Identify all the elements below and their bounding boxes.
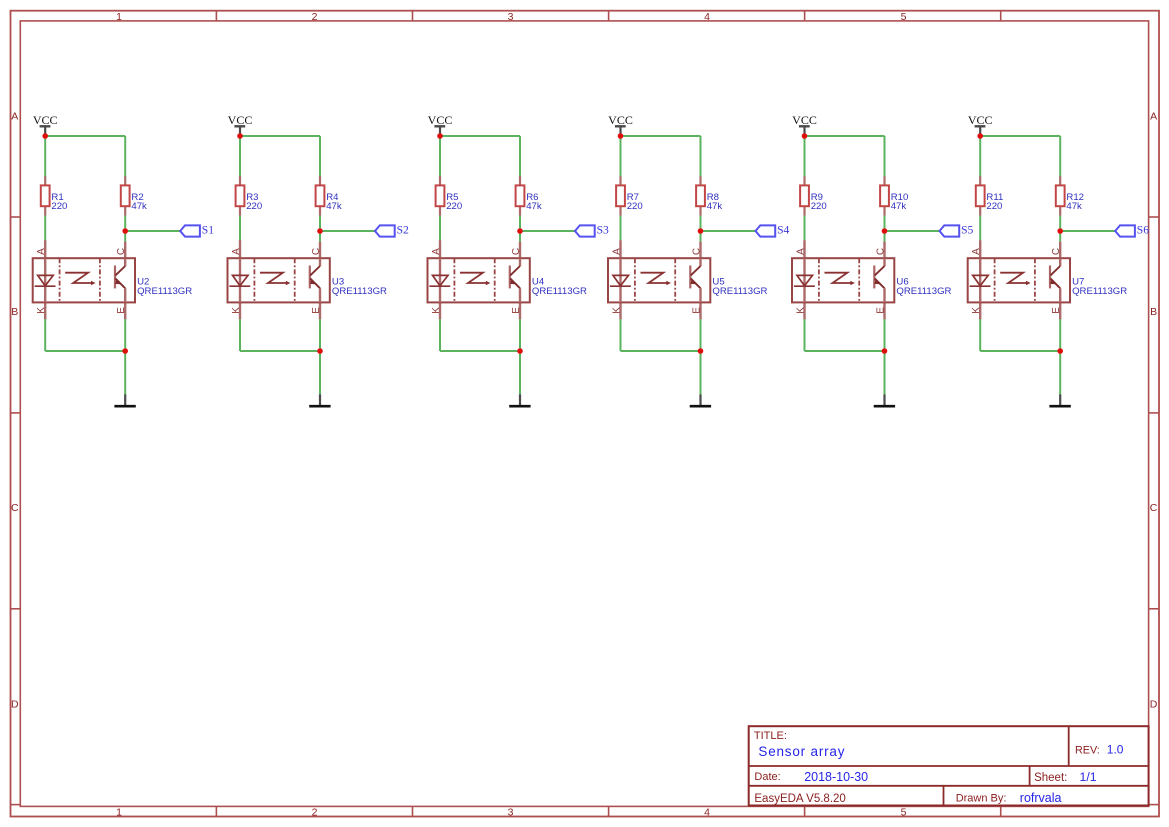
svg-text:E: E: [875, 307, 886, 314]
wire VCC to R2 (block 1): [124, 136, 126, 177]
border row ticks right: [1149, 216, 1159, 218]
pin C (collector) of U7: [1059, 242, 1061, 259]
wire bottom horizontal (block 4): [621, 350, 701, 352]
internal divider dash lines of U6: [818, 258, 820, 302]
svg-text:QRE1113GR: QRE1113GR: [712, 286, 767, 297]
pin E (emitter) of U4: [519, 302, 521, 319]
pin K (cathode) of U2: [44, 302, 46, 319]
pin A (anode) of U2: [44, 240, 46, 258]
svg-text:K: K: [971, 307, 982, 314]
junction ground node (block 5): [882, 348, 888, 354]
pin A (anode) of U7: [979, 240, 981, 258]
resistor R6 47k: [516, 176, 542, 216]
wire pin K down (block 3): [439, 319, 441, 351]
phototransistor of U6: [873, 266, 875, 289]
wire VCC to R3 (block 2): [239, 136, 241, 177]
junction ground node (block 3): [517, 348, 523, 354]
svg-text:C: C: [1150, 502, 1158, 514]
wire pin E to ground (block 6): [1059, 319, 1061, 394]
junction VCC node (block 2): [237, 133, 243, 139]
ground (block 6): [1049, 394, 1070, 406]
svg-text:S3: S3: [597, 224, 609, 237]
LED (emitter diode) of U2: [44, 258, 46, 302]
pin A (anode) of U5: [619, 240, 621, 258]
svg-text:A: A: [36, 248, 47, 255]
svg-text:A: A: [795, 248, 806, 255]
ground (block 5): [874, 394, 895, 406]
svg-text:K: K: [231, 307, 242, 314]
wire R4 to node S2 (block 2): [319, 216, 321, 231]
phototransistor of U4: [509, 266, 511, 289]
wire R6 to node S3 (block 3): [519, 216, 521, 231]
svg-text:Date:: Date:: [754, 771, 780, 783]
svg-text:220: 220: [246, 201, 262, 212]
light coupling arrow of U6: [825, 273, 851, 283]
svg-text:E: E: [116, 307, 127, 314]
junction VCC node (block 1): [42, 133, 48, 139]
junction ground node (block 6): [1057, 348, 1063, 354]
wire VCC to R8 (block 4): [700, 136, 702, 177]
svg-text:E: E: [311, 307, 322, 314]
phototransistor of U7: [1049, 266, 1051, 289]
optical sensor U7 QRE1113GR: [968, 240, 1128, 319]
svg-text:1/1: 1/1: [1080, 770, 1097, 784]
body outline of U6: [792, 258, 894, 302]
wire pin E to ground (block 1): [124, 319, 126, 394]
wire R12 to node S6 (block 6): [1059, 216, 1061, 231]
wire VCC to R1 (block 1): [44, 136, 46, 177]
wire node S6 to pin C (block 6): [1059, 231, 1061, 242]
optical sensor U6 QRE1113GR: [792, 240, 952, 319]
wire node S2 to pin C (block 2): [319, 231, 321, 242]
svg-text:A: A: [971, 248, 982, 255]
optical sensor U2 QRE1113GR: [33, 240, 193, 319]
pin C (collector) of U6: [883, 242, 885, 259]
pin K (cathode) of U3: [239, 302, 241, 319]
phototransistor of U2: [114, 266, 116, 289]
svg-text:TITLE:: TITLE:: [754, 730, 787, 742]
svg-text:B: B: [11, 306, 18, 318]
phototransistor of U5: [689, 266, 691, 289]
svg-text:QRE1113GR: QRE1113GR: [532, 286, 587, 297]
internal divider dash lines of U7: [994, 258, 996, 302]
svg-text:S1: S1: [202, 224, 214, 237]
junction node S5: [882, 228, 888, 234]
svg-text:220: 220: [627, 201, 643, 212]
wire pin E to ground (block 2): [319, 319, 321, 394]
resistor R12 47k: [1056, 176, 1084, 216]
pin E (emitter) of U6: [883, 302, 885, 319]
ground (block 3): [509, 394, 530, 406]
light coupling arrow of U2: [65, 273, 91, 283]
wire R9 to pin A (block 5): [804, 216, 806, 241]
resistor R7 220: [616, 176, 643, 216]
svg-text:47k: 47k: [326, 201, 342, 212]
svg-text:C: C: [1051, 248, 1062, 255]
svg-text:4: 4: [704, 11, 710, 23]
wire pin K down (block 5): [804, 319, 806, 351]
wire pin K down (block 6): [979, 319, 981, 351]
svg-text:C: C: [691, 248, 702, 255]
svg-text:A: A: [611, 248, 622, 255]
internal divider dash lines of U5: [634, 258, 636, 302]
pin E (emitter) of U5: [699, 302, 701, 319]
pin A (anode) of U4: [439, 240, 441, 258]
light coupling arrow of U4: [460, 273, 486, 283]
wire VCC horizontal (block 3): [440, 135, 520, 137]
wire VCC horizontal (block 2): [240, 135, 320, 137]
resistor R8 47k: [696, 176, 722, 216]
optical sensor U5 QRE1113GR: [608, 240, 768, 319]
wire VCC to R9 (block 5): [804, 136, 806, 177]
resistor R11 220: [976, 176, 1003, 216]
svg-text:K: K: [431, 307, 442, 314]
wire node S2 to net flag (block 2): [320, 230, 375, 232]
wire node S3 to net flag (block 3): [520, 230, 575, 232]
wire node S6 to net flag (block 6): [1060, 230, 1115, 232]
body outline of U3: [228, 258, 330, 302]
svg-text:220: 220: [51, 201, 67, 212]
pin K (cathode) of U7: [979, 302, 981, 319]
svg-text:A: A: [11, 110, 18, 122]
body outline of U5: [608, 258, 710, 302]
svg-text:EasyEDA V5.8.20: EasyEDA V5.8.20: [754, 793, 845, 805]
svg-text:K: K: [611, 307, 622, 314]
wire R11 to pin A (block 6): [979, 216, 981, 241]
junction node S2: [317, 228, 323, 234]
svg-text:E: E: [691, 307, 702, 314]
power flag VCC (block 1): [33, 113, 58, 136]
svg-text:3: 3: [508, 11, 514, 23]
svg-text:47k: 47k: [891, 201, 907, 212]
svg-text:REV:: REV:: [1075, 744, 1100, 756]
resistor R4 47k: [316, 176, 342, 216]
wire R10 to node S5 (block 5): [884, 216, 886, 231]
svg-text:1: 1: [116, 11, 122, 23]
wire R1 to pin A (block 1): [44, 216, 46, 241]
pin C (collector) of U3: [319, 242, 321, 259]
svg-text:S4: S4: [777, 224, 789, 237]
svg-text:C: C: [311, 248, 322, 255]
junction node S6: [1057, 228, 1063, 234]
light coupling arrow of U3: [260, 273, 286, 283]
junction ground node (block 2): [317, 348, 323, 354]
ground (block 2): [309, 394, 330, 406]
net flag S1: [180, 224, 214, 237]
LED (emitter diode) of U7: [979, 258, 981, 302]
pin E (emitter) of U3: [319, 302, 321, 319]
power flag VCC (block 5): [792, 113, 817, 136]
body outline of U7: [968, 258, 1070, 302]
svg-text:D: D: [1150, 698, 1158, 710]
svg-text:Sheet:: Sheet:: [1034, 772, 1067, 784]
ground (block 1): [114, 394, 135, 406]
svg-text:2: 2: [312, 11, 318, 23]
wire VCC horizontal (block 4): [621, 135, 701, 137]
border column ticks top: [215, 11, 217, 21]
pin K (cathode) of U4: [439, 302, 441, 319]
junction ground node (block 4): [698, 348, 704, 354]
svg-text:S6: S6: [1137, 224, 1149, 237]
wire node S5 to pin C (block 5): [884, 231, 886, 242]
optical sensor U3 QRE1113GR: [228, 240, 388, 319]
internal divider dash lines of U4: [453, 258, 455, 302]
svg-text:VCC: VCC: [792, 113, 817, 127]
wire node S1 to pin C (block 1): [124, 231, 126, 242]
wire VCC to R4 (block 2): [319, 136, 321, 177]
wire R5 to pin A (block 3): [439, 216, 441, 241]
LED (emitter diode) of U5: [619, 258, 621, 302]
pin C (collector) of U4: [519, 242, 521, 259]
pin A (anode) of U6: [803, 240, 805, 258]
svg-text:220: 220: [446, 201, 462, 212]
wire VCC to R10 (block 5): [884, 136, 886, 177]
svg-text:E: E: [1051, 307, 1062, 314]
wire pin K down (block 2): [239, 319, 241, 351]
wire bottom horizontal (block 2): [240, 350, 320, 352]
svg-text:B: B: [1150, 306, 1157, 318]
svg-text:QRE1113GR: QRE1113GR: [137, 286, 192, 297]
wire VCC horizontal (block 6): [980, 135, 1060, 137]
wire node S4 to net flag (block 4): [701, 230, 756, 232]
power flag VCC (block 2): [228, 113, 253, 136]
wire VCC to R5 (block 3): [439, 136, 441, 177]
svg-text:VCC: VCC: [428, 113, 453, 127]
wire pin E to ground (block 4): [700, 319, 702, 394]
wire pin K down (block 4): [620, 319, 622, 351]
ground (block 4): [690, 394, 711, 406]
junction ground node (block 1): [122, 348, 128, 354]
svg-text:4: 4: [704, 807, 710, 819]
border row ticks left: [11, 216, 21, 218]
border corner step bottom-right: [1149, 804, 1159, 806]
wire node S1 to net flag (block 1): [125, 230, 180, 232]
svg-text:S2: S2: [397, 224, 409, 237]
wire pin K down (block 1): [44, 319, 46, 351]
svg-text:A: A: [1150, 110, 1157, 122]
power flag VCC (block 6): [968, 113, 993, 136]
svg-text:QRE1113GR: QRE1113GR: [896, 286, 951, 297]
wire VCC to R11 (block 6): [979, 136, 981, 177]
net flag S5: [940, 224, 974, 237]
resistor R1 220: [41, 176, 68, 216]
junction VCC node (block 4): [618, 133, 624, 139]
junction node S1: [122, 228, 128, 234]
svg-text:C: C: [116, 248, 127, 255]
internal divider dash lines of U3: [253, 258, 255, 302]
title block outline: [749, 726, 1149, 805]
junction VCC node (block 6): [977, 133, 983, 139]
junction node S3: [517, 228, 523, 234]
svg-text:E: E: [511, 307, 522, 314]
svg-text:Drawn By:: Drawn By:: [956, 793, 1007, 805]
pin E (emitter) of U2: [124, 302, 126, 319]
wire VCC to R12 (block 6): [1059, 136, 1061, 177]
wire R3 to pin A (block 2): [239, 216, 241, 241]
junction VCC node (block 5): [802, 133, 808, 139]
pin K (cathode) of U6: [803, 302, 805, 319]
pin E (emitter) of U7: [1059, 302, 1061, 319]
internal divider dash lines of U2: [59, 258, 61, 302]
svg-text:D: D: [11, 698, 19, 710]
resistor R3 220: [236, 176, 263, 216]
svg-text:Sensor array: Sensor array: [758, 744, 845, 759]
svg-text:1: 1: [116, 807, 122, 819]
pin C (collector) of U5: [699, 242, 701, 259]
light coupling arrow of U5: [641, 273, 667, 283]
wire node S3 to pin C (block 3): [519, 231, 521, 242]
svg-text:47k: 47k: [1066, 201, 1082, 212]
svg-text:1.0: 1.0: [1107, 743, 1124, 757]
LED (emitter diode) of U6: [803, 258, 805, 302]
wire node S5 to net flag (block 5): [885, 230, 940, 232]
LED (emitter diode) of U3: [239, 258, 241, 302]
svg-text:C: C: [11, 502, 19, 514]
svg-text:rofrvala: rofrvala: [1020, 791, 1062, 805]
net flag S3: [575, 224, 609, 237]
wire bottom horizontal (block 1): [45, 350, 125, 352]
svg-text:2: 2: [312, 807, 318, 819]
wire pin E to ground (block 5): [884, 319, 886, 394]
svg-text:2018-10-30: 2018-10-30: [804, 770, 868, 784]
phototransistor of U3: [309, 266, 311, 289]
net flag S4: [756, 224, 790, 237]
svg-text:C: C: [511, 248, 522, 255]
svg-text:VCC: VCC: [33, 113, 58, 127]
border column ticks bottom: [215, 806, 217, 816]
svg-text:5: 5: [901, 807, 907, 819]
svg-text:5: 5: [901, 11, 907, 23]
svg-text:3: 3: [508, 807, 514, 819]
border corner step bottom-left: [10, 804, 20, 806]
svg-text:QRE1113GR: QRE1113GR: [1072, 286, 1127, 297]
body outline of U2: [33, 258, 135, 302]
wire R8 to node S4 (block 4): [700, 216, 702, 231]
wire bottom horizontal (block 6): [980, 350, 1060, 352]
svg-text:C: C: [875, 248, 886, 255]
pin C (collector) of U2: [124, 242, 126, 259]
resistor R5 220: [436, 176, 463, 216]
wire R2 to node S1 (block 1): [124, 216, 126, 231]
svg-text:47k: 47k: [526, 201, 542, 212]
svg-text:K: K: [795, 307, 806, 314]
wire VCC horizontal (block 5): [805, 135, 885, 137]
svg-text:K: K: [36, 307, 47, 314]
optical sensor U4 QRE1113GR: [428, 240, 588, 319]
power flag VCC (block 4): [608, 113, 633, 136]
wire VCC to R7 (block 4): [620, 136, 622, 177]
svg-text:220: 220: [811, 201, 827, 212]
svg-text:220: 220: [986, 201, 1002, 212]
body outline of U4: [428, 258, 530, 302]
light coupling arrow of U7: [1000, 273, 1026, 283]
wire R7 to pin A (block 4): [620, 216, 622, 241]
power flag VCC (block 3): [428, 113, 453, 136]
svg-text:S5: S5: [961, 224, 973, 237]
svg-text:A: A: [231, 248, 242, 255]
net flag S2: [375, 224, 409, 237]
svg-text:A: A: [431, 248, 442, 255]
pin A (anode) of U3: [239, 240, 241, 258]
wire bottom horizontal (block 5): [805, 350, 885, 352]
LED (emitter diode) of U4: [439, 258, 441, 302]
svg-text:VCC: VCC: [608, 113, 633, 127]
resistor R10 47k: [880, 176, 908, 216]
pin K (cathode) of U5: [619, 302, 621, 319]
resistor R2 47k: [121, 176, 147, 216]
svg-text:QRE1113GR: QRE1113GR: [332, 286, 387, 297]
wire VCC to R6 (block 3): [519, 136, 521, 177]
wire bottom horizontal (block 3): [440, 350, 520, 352]
svg-text:VCC: VCC: [968, 113, 993, 127]
svg-text:VCC: VCC: [228, 113, 253, 127]
svg-text:47k: 47k: [131, 201, 147, 212]
junction VCC node (block 3): [437, 133, 443, 139]
wire pin E to ground (block 3): [519, 319, 521, 394]
svg-text:47k: 47k: [707, 201, 723, 212]
resistor R9 220: [800, 176, 827, 216]
junction node S4: [698, 228, 704, 234]
wire VCC horizontal (block 1): [45, 135, 125, 137]
wire node S4 to pin C (block 4): [700, 231, 702, 242]
net flag S6: [1115, 224, 1149, 237]
